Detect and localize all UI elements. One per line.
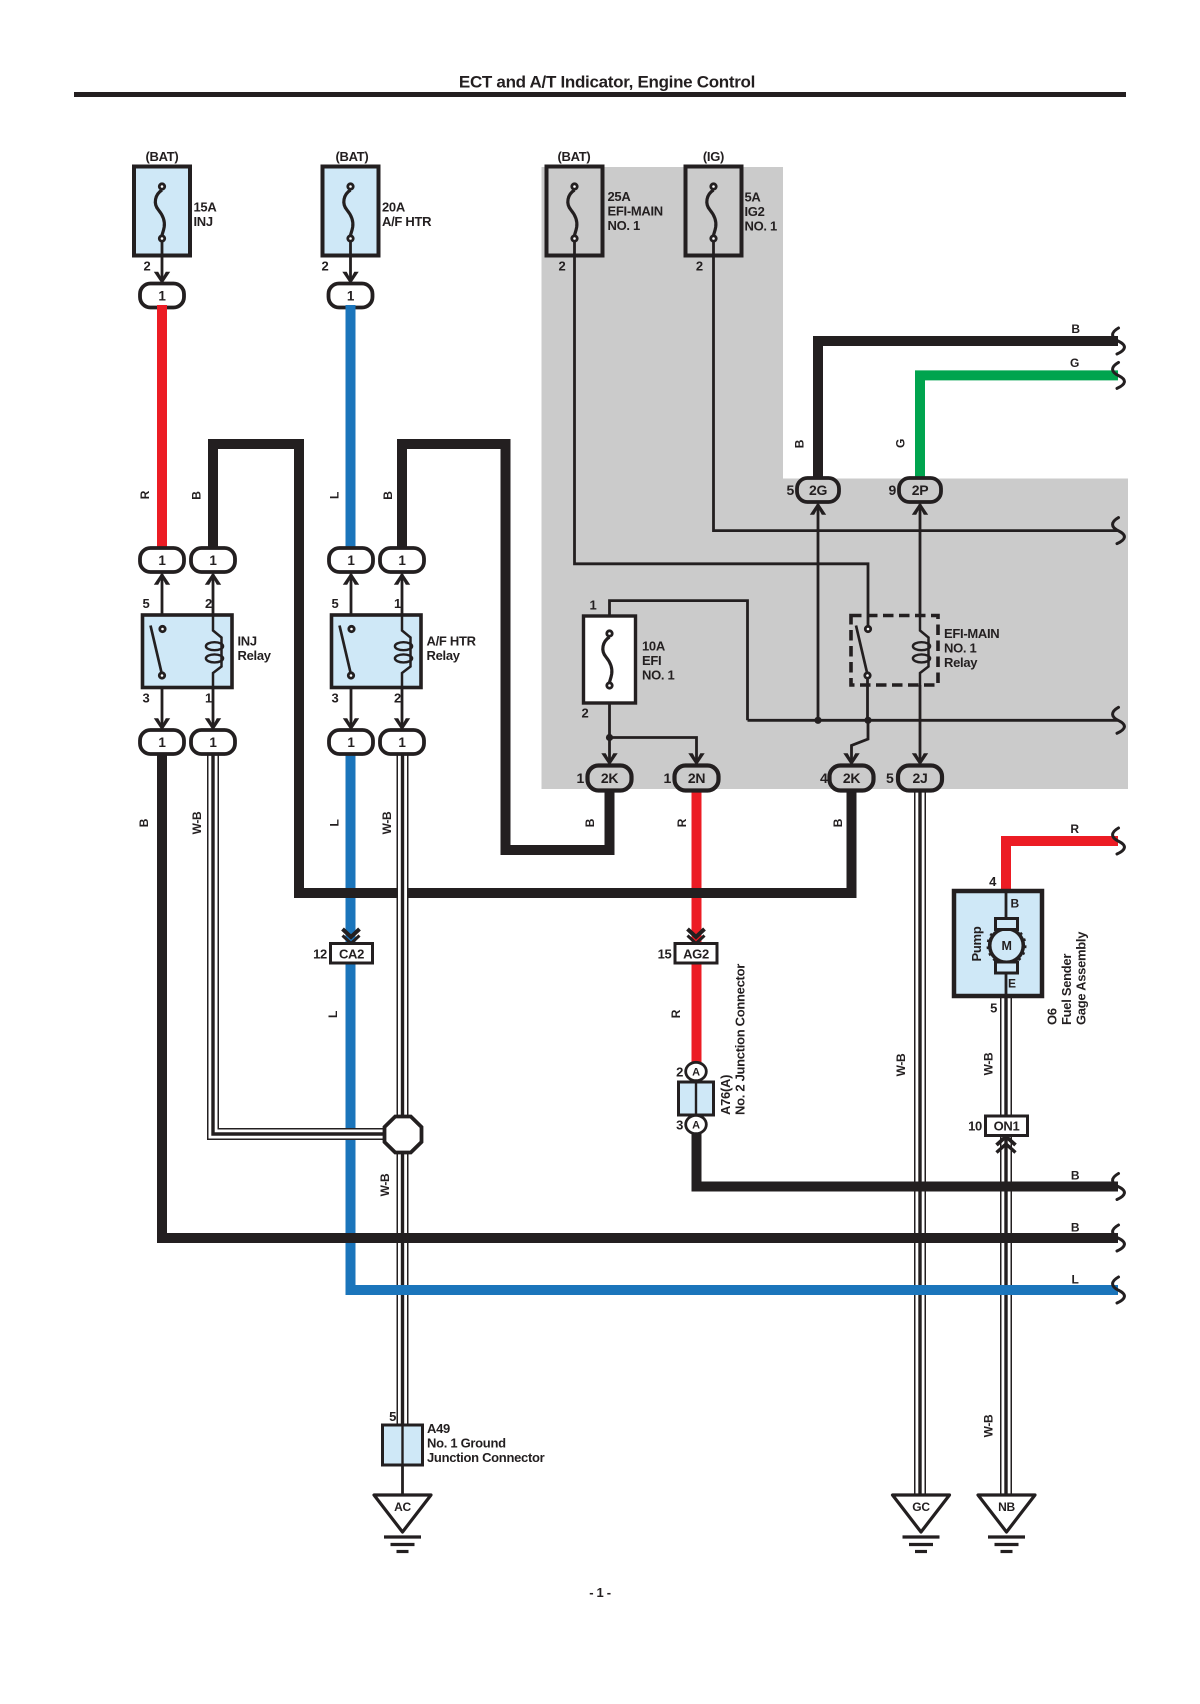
wire fuse20A pin2 to connector — [342, 242, 358, 284]
connector 1 — [140, 730, 184, 754]
label W-B wire — [190, 811, 204, 834]
wire fuse10A pin2 down to 2K — [601, 703, 617, 766]
wire fuse5A pin2 rail to right edge — [714, 242, 1125, 544]
label W-B wire — [982, 1414, 996, 1437]
svg-text:G: G — [894, 439, 908, 448]
svg-text:2G: 2G — [809, 482, 827, 498]
svg-text:1: 1 — [158, 288, 166, 303]
svg-text:L: L — [1071, 1273, 1078, 1287]
svg-text:1: 1 — [209, 735, 217, 750]
junction CA2 pin12 — [313, 929, 372, 963]
connector 2K pin4 — [820, 766, 874, 791]
svg-text:2: 2 — [144, 259, 151, 274]
wire INJ relay pin1 down — [205, 688, 221, 731]
svg-text:12: 12 — [313, 946, 327, 961]
connector 1 — [329, 730, 373, 754]
label B wire — [381, 491, 395, 500]
svg-text:W-B: W-B — [378, 1173, 392, 1196]
svg-text:M: M — [1001, 939, 1011, 953]
svg-text:CA2: CA2 — [339, 946, 364, 961]
relay A/F HTR — [332, 596, 477, 706]
svg-text:Junction Connector: Junction Connector — [427, 1450, 545, 1465]
svg-text:2: 2 — [559, 259, 566, 274]
svg-text:15A: 15A — [194, 200, 218, 215]
wire A/F relay pin5 up — [343, 573, 359, 616]
ground GC — [893, 1495, 950, 1552]
svg-text:W-B: W-B — [894, 1053, 908, 1076]
label R right edge — [1070, 822, 1079, 836]
svg-text:O6Fuel SenderGage Assembly: O6Fuel SenderGage Assembly — [1045, 931, 1089, 1025]
svg-text:AG2: AG2 — [683, 946, 709, 961]
svg-text:W-B: W-B — [190, 811, 204, 834]
svg-text:1: 1 — [394, 596, 401, 611]
svg-text:5: 5 — [332, 596, 339, 611]
svg-text:R: R — [138, 490, 152, 499]
svg-text:2: 2 — [582, 706, 589, 721]
svg-text:1: 1 — [347, 553, 355, 568]
svg-text:4: 4 — [820, 770, 828, 786]
label G right edge — [1070, 356, 1079, 370]
label B wire — [831, 818, 845, 827]
svg-text:R: R — [675, 818, 689, 827]
connector 1 — [380, 730, 424, 754]
connector 1 — [191, 548, 235, 572]
svg-text:20A: 20A — [382, 200, 406, 215]
svg-text:EFI-MAIN: EFI-MAIN — [944, 626, 999, 641]
label L wire — [326, 1011, 340, 1018]
svg-text:1: 1 — [158, 735, 166, 750]
svg-text:W-B: W-B — [380, 811, 394, 834]
wire fuse10A pin1 to rail — [610, 601, 748, 721]
wire W-B A/F relay pin2 to A49 — [397, 753, 409, 1426]
svg-text:1: 1 — [205, 691, 212, 706]
svg-text:2: 2 — [322, 259, 329, 274]
wire G from 2P to right edge — [920, 362, 1124, 479]
svg-text:1: 1 — [590, 598, 597, 613]
label W-B wire — [380, 811, 394, 834]
svg-text:EFI-MAIN: EFI-MAIN — [608, 204, 663, 219]
label B wire — [137, 818, 151, 827]
svg-text:2: 2 — [676, 1064, 683, 1079]
svg-text:AC: AC — [394, 1500, 411, 1514]
svg-text:NO. 1: NO. 1 — [944, 641, 977, 656]
label L right edge — [1071, 1273, 1078, 1287]
fuse 10A EFI NO.1 — [582, 598, 675, 721]
fuse 5A IG2 NO.1 — [686, 149, 778, 274]
connector 1 — [329, 548, 373, 572]
connector 2G pin5 — [787, 478, 840, 502]
label W-B wire — [982, 1052, 996, 1075]
svg-text:IG2: IG2 — [745, 204, 765, 219]
svg-text:Relay: Relay — [427, 648, 461, 663]
svg-text:2: 2 — [205, 596, 212, 611]
label W-B wire — [378, 1173, 392, 1196]
wire B junction connector to right edge — [697, 1130, 1125, 1200]
svg-text:1: 1 — [398, 735, 406, 750]
svg-text:INJ: INJ — [194, 214, 213, 229]
page number — [589, 1585, 611, 1600]
svg-text:(BAT): (BAT) — [146, 149, 179, 164]
fuse 25A EFI-MAIN NO.1 — [547, 149, 663, 274]
svg-text:(BAT): (BAT) — [336, 149, 369, 164]
svg-text:2K: 2K — [843, 770, 860, 786]
svg-text:B: B — [190, 491, 204, 500]
svg-text:1: 1 — [209, 553, 217, 568]
svg-text:No. 1 Ground: No. 1 Ground — [427, 1436, 506, 1451]
wire L to right edge — [351, 1255, 1125, 1303]
relay EFI-MAIN NO.1 (dashed) — [851, 616, 999, 686]
svg-text:R: R — [1070, 822, 1079, 836]
svg-text:5: 5 — [886, 770, 894, 786]
label L wire — [328, 819, 342, 826]
svg-text:A/F HTR: A/F HTR — [382, 214, 432, 229]
wire R 2N to junction A — [692, 789, 702, 1062]
svg-text:G: G — [1070, 356, 1079, 370]
svg-text:(IG): (IG) — [703, 149, 724, 164]
svg-text:B: B — [1011, 897, 1020, 911]
connector 1 (below 15A fuse) — [140, 284, 184, 308]
fuse 15A INJ — [134, 149, 217, 274]
wire L fuse to A/F relay — [346, 305, 356, 550]
connector 1 — [191, 730, 235, 754]
svg-text:3: 3 — [143, 691, 150, 706]
wire branch to 2N — [610, 738, 705, 766]
fuel pump assembly O6 — [954, 874, 1089, 1025]
wire W-B fuel pump to ground NB — [1000, 996, 1012, 1495]
label B wire — [583, 818, 597, 827]
svg-text:5: 5 — [990, 1000, 997, 1015]
svg-text:ECT and A/T Indicator, Engine: ECT and A/T Indicator, Engine Control — [459, 73, 755, 92]
label R wire — [138, 490, 152, 499]
wire L A/F relay pin3 down — [346, 753, 356, 1261]
wire relay coil to 2J — [912, 685, 928, 766]
svg-text:B: B — [1071, 1168, 1080, 1182]
relay INJ — [143, 596, 272, 706]
svg-text:2N: 2N — [688, 770, 705, 786]
grey harness region — [542, 167, 1129, 789]
svg-text:L: L — [328, 492, 342, 499]
wire rail to 2K pin4 — [843, 720, 868, 765]
svg-text:B: B — [831, 818, 845, 827]
svg-text:B: B — [583, 818, 597, 827]
svg-text:B: B — [1071, 1220, 1080, 1234]
wire A/F relay pin1 up — [394, 573, 410, 616]
label G wire — [894, 439, 908, 448]
connector 1 — [380, 548, 424, 572]
svg-text:Pump: Pump — [969, 926, 984, 961]
svg-text:NO. 1: NO. 1 — [608, 218, 641, 233]
svg-text:L: L — [326, 1011, 340, 1018]
svg-text:1: 1 — [347, 288, 355, 303]
svg-text:4: 4 — [989, 874, 997, 889]
connector 2K pin1 — [577, 766, 632, 791]
wire 2P down to relay coil — [912, 503, 928, 616]
wire B from 2G to right edge — [818, 328, 1124, 479]
svg-text:EFI: EFI — [642, 653, 661, 668]
svg-text:A: A — [692, 1067, 700, 1079]
wire B A/F relay pin1 loop to 2K pin1 — [402, 444, 610, 850]
connector 1 (below 20A fuse) — [329, 284, 373, 308]
junction connector A76(A) No.2 — [676, 964, 747, 1134]
svg-text:5A: 5A — [745, 190, 762, 205]
wire INJ relay pin5 up — [154, 573, 170, 616]
label B right edge — [1071, 1168, 1080, 1182]
svg-text:A76(A)No. 2 Junction Connector: A76(A)No. 2 Junction Connector — [718, 964, 748, 1115]
label B wire — [190, 491, 204, 500]
svg-text:15: 15 — [658, 946, 672, 961]
svg-text:GC: GC — [912, 1500, 930, 1514]
junction ON1 pin10 — [968, 1116, 1027, 1153]
svg-text:5: 5 — [787, 482, 795, 498]
wire INJ relay pin3 down — [154, 688, 170, 731]
rail EFI node to right edge — [748, 707, 1125, 733]
ground NB — [978, 1495, 1035, 1552]
svg-text:5: 5 — [389, 1409, 396, 1424]
svg-text:INJ: INJ — [238, 634, 257, 649]
svg-text:ON1: ON1 — [994, 1118, 1020, 1133]
junction connector A49 No.1 ground — [383, 1409, 545, 1465]
svg-text:2: 2 — [394, 691, 401, 706]
svg-text:1: 1 — [398, 553, 406, 568]
junction octagon (W-B splice) — [385, 1117, 422, 1153]
svg-text:- 1 -: - 1 - — [589, 1585, 611, 1600]
fuse 20A A/F HTR — [322, 149, 433, 274]
svg-text:3: 3 — [332, 691, 339, 706]
svg-text:L: L — [328, 819, 342, 826]
wire A/F relay pin3 down — [343, 688, 359, 731]
svg-text:NO. 1: NO. 1 — [745, 219, 778, 234]
svg-text:2P: 2P — [912, 482, 929, 498]
connector 1 — [140, 548, 184, 572]
svg-text:(BAT): (BAT) — [558, 149, 591, 164]
wire B INJ relay pin2 loop to 2K pin4 — [213, 444, 852, 893]
svg-text:1: 1 — [158, 553, 166, 568]
svg-text:1: 1 — [347, 735, 355, 750]
wire A/F relay pin2 down — [394, 688, 410, 731]
svg-text:10A: 10A — [642, 639, 666, 654]
svg-text:Relay: Relay — [238, 648, 272, 663]
ground AC — [374, 1495, 431, 1552]
label B wire — [793, 439, 807, 448]
svg-text:A49: A49 — [427, 1421, 450, 1436]
svg-text:B: B — [381, 491, 395, 500]
wire A49 to ground AC — [401, 1465, 404, 1495]
svg-text:Relay: Relay — [944, 655, 978, 670]
svg-text:W-B: W-B — [982, 1414, 996, 1437]
wire B INJ relay pin3 to right edge — [162, 753, 1124, 1252]
svg-text:B: B — [137, 818, 151, 827]
svg-text:A: A — [692, 1120, 700, 1132]
wire W-B 2J to ground GC — [914, 789, 926, 1495]
svg-text:2: 2 — [696, 259, 703, 274]
svg-text:NO. 1: NO. 1 — [642, 668, 675, 683]
junction AG2 pin15 — [658, 929, 717, 963]
svg-text:B: B — [1071, 322, 1080, 336]
connector 2N pin1 — [664, 766, 719, 791]
wire W-B INJ relay pin1 to junction — [213, 753, 397, 1135]
svg-text:25A: 25A — [608, 189, 632, 204]
wire R fuse to INJ relay — [157, 305, 167, 550]
wire R fuel pump to right edge — [1006, 828, 1124, 891]
svg-text:5: 5 — [143, 596, 150, 611]
svg-text:NB: NB — [998, 1500, 1015, 1514]
connector 2P pin9 — [889, 478, 942, 502]
label R wire — [669, 1009, 683, 1018]
svg-text:1: 1 — [577, 770, 585, 786]
wire 2G down to rail — [810, 503, 826, 724]
wire relay switch to rail — [864, 679, 871, 724]
svg-text:2J: 2J — [913, 770, 928, 786]
title: ECT and A/T Indicator, Engine Control — [74, 73, 1126, 98]
svg-text:B: B — [793, 439, 807, 448]
label W-B wire — [894, 1053, 908, 1076]
wire fuse25A pin2 to EFI-MAIN relay switch — [575, 242, 869, 625]
svg-text:W-B: W-B — [982, 1052, 996, 1075]
svg-text:E: E — [1008, 977, 1016, 991]
svg-text:9: 9 — [889, 482, 897, 498]
label B right edge — [1071, 1220, 1080, 1234]
svg-text:R: R — [669, 1009, 683, 1018]
wire fuse15A pin2 to connector — [154, 242, 170, 284]
svg-text:3: 3 — [676, 1117, 683, 1132]
connector 2J pin5 — [886, 766, 942, 791]
wire INJ relay pin2 up — [205, 573, 221, 616]
label B right edge — [1071, 322, 1080, 336]
svg-text:A/F HTR: A/F HTR — [427, 634, 477, 649]
label L wire — [328, 492, 342, 499]
svg-text:2K: 2K — [601, 770, 618, 786]
label R wire — [675, 818, 689, 827]
svg-text:10: 10 — [968, 1118, 982, 1133]
svg-text:1: 1 — [664, 770, 672, 786]
